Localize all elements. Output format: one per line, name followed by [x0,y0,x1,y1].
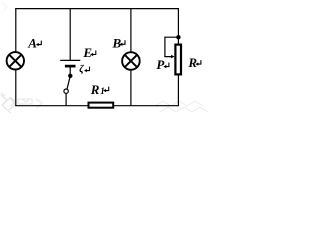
switch: junction dot [68,74,72,78]
wire: left branch (through lamp A) [15,8,17,106]
node: wiper tap junction dot [176,35,180,39]
switch: pivot circle [64,89,68,93]
label A with return mark [27,36,41,51]
label E with return mark [82,45,95,60]
label R1 with return mark [90,82,109,97]
battery E: short thick plate [65,65,76,68]
wire: battery to switch [69,67,71,76]
label R with return mark [187,55,201,70]
svg-text:R: R [187,55,197,70]
lamp A [7,52,24,69]
label B with return mark [112,35,126,50]
wire: battery branch from top rail [69,9,71,61]
lamp B [122,52,140,70]
svg-text:E: E [82,45,92,60]
wire: right branch from top rail [177,8,179,45]
wire: resistor R to bottom rail [177,75,179,107]
svg-text:B: B [112,35,122,50]
faint watermark blobs (decorative) [1,3,208,113]
wire: switch to bottom rail [65,93,67,105]
svg-text:R: R [90,82,100,97]
svg-text:P: P [156,57,165,72]
battery E: long plate [60,59,80,61]
wire: top rail [15,8,179,10]
svg-text:A: A [27,36,37,51]
switch: blade [67,76,70,89]
wire: bottom rail [15,105,179,107]
wire: lamp B branch [130,9,132,106]
svg-text:ζ: ζ [79,64,84,75]
resistor R1 (in bottom rail) [89,103,114,108]
wiper P: tap wire with arrow into resistor [165,37,179,58]
label P with return mark [156,57,169,72]
resistor R (rheostat body) [175,45,181,75]
label zeta (below E) with return mark [79,64,89,75]
svg-text:1: 1 [100,86,105,96]
